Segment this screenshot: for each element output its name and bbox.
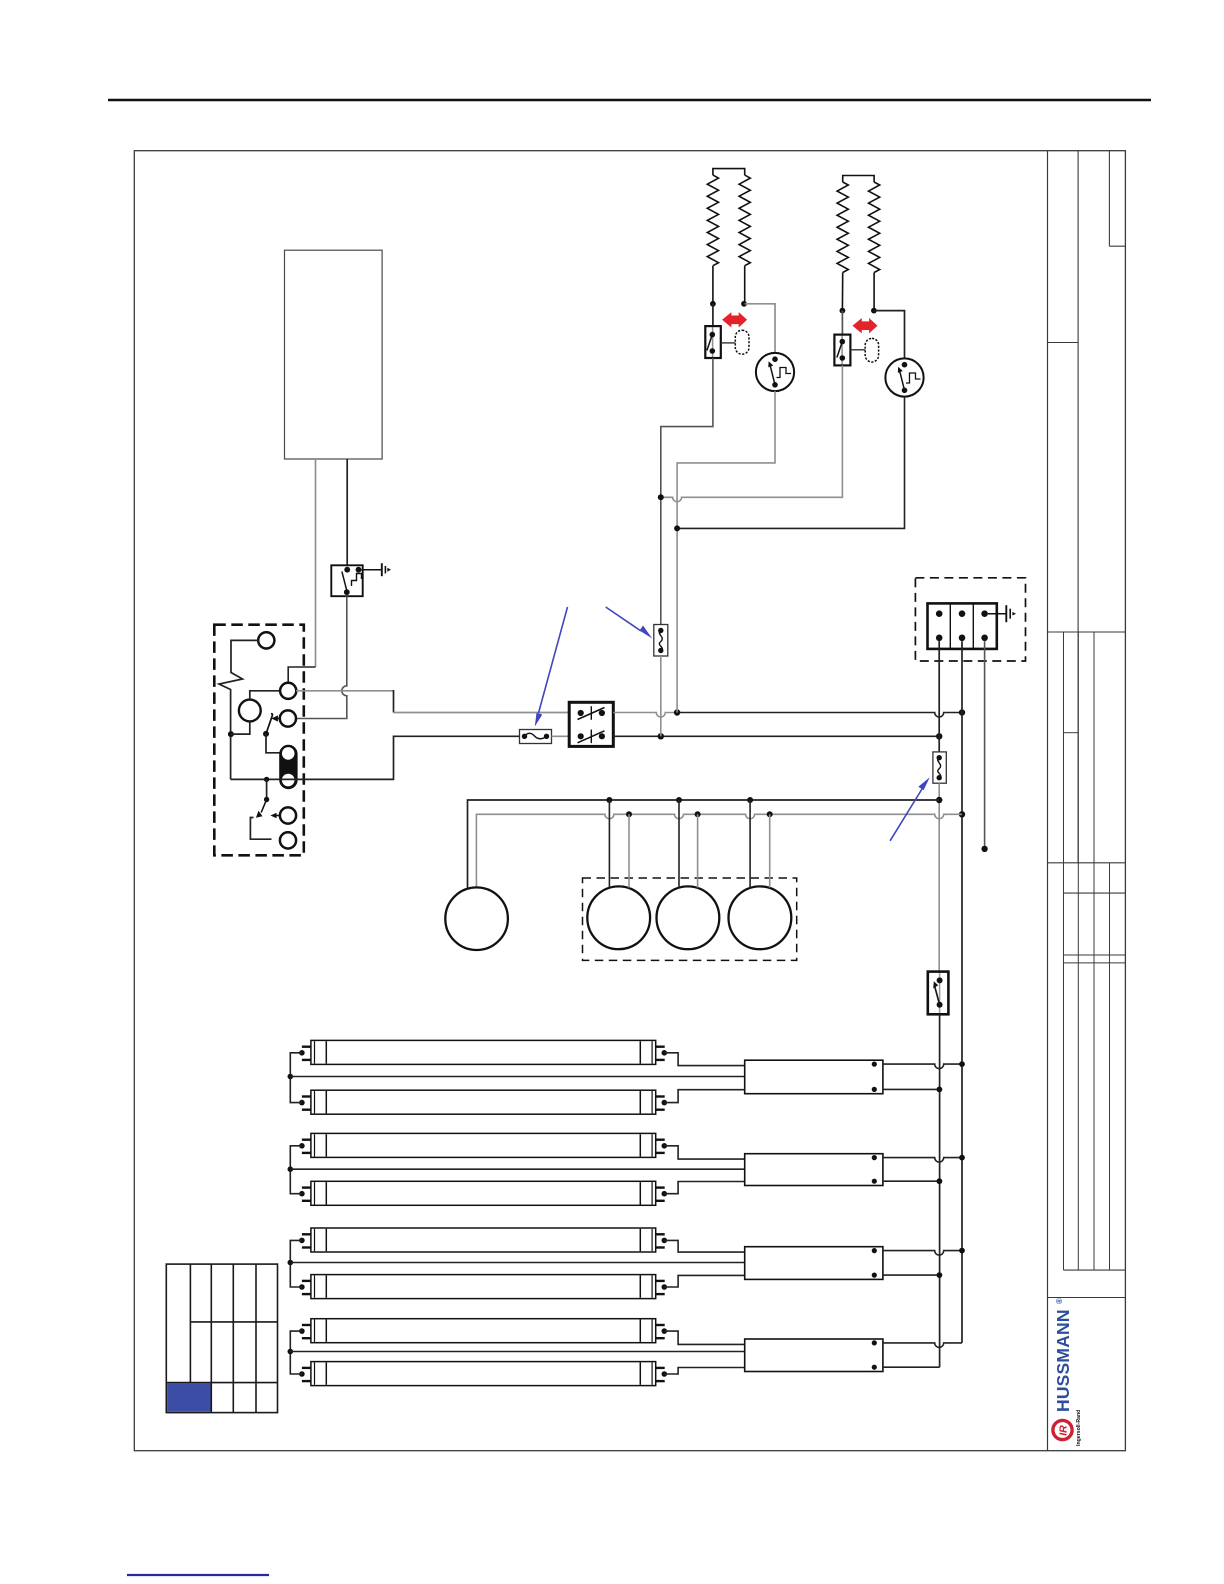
drawing border [134, 151, 1125, 1451]
fluorescent tube [302, 1133, 665, 1157]
svg-text:®: ® [1055, 1298, 1064, 1304]
V3 stub [984, 641, 986, 849]
sensing bulb O2 [865, 338, 878, 362]
wire heater into SW5 [712, 304, 714, 326]
fuse F2 [654, 625, 668, 657]
wire TC2 down to line B [677, 397, 904, 529]
terminal block ground [988, 605, 1016, 622]
blue highlight cell [167, 1383, 210, 1411]
fan motor FM2 [657, 886, 720, 949]
wire: SW1 to terminal T3 (hops gray bus) [296, 596, 347, 718]
fluorescent tube [302, 1090, 665, 1114]
svg-text:Ingersoll-Rand: Ingersoll-Rand [1076, 1410, 1082, 1446]
top rule [108, 99, 1151, 102]
wire heater to timer TC1 [745, 304, 775, 353]
case outline rectangle [285, 250, 383, 459]
fan motor FM0 [445, 887, 508, 950]
ballast B3 [745, 1247, 883, 1280]
wire TC1 down to top bus [677, 391, 775, 712]
bottom-left revision table [166, 1264, 277, 1413]
ballast outputs [883, 1251, 962, 1256]
bottom bus after SW4 [613, 735, 939, 737]
ground switch SW1 box [331, 565, 362, 596]
tube right wires to ballast [664, 1053, 744, 1066]
wire: rect left output to terminal T2 [315, 459, 317, 667]
tube right wires to ballast [664, 1331, 744, 1344]
pilot light M1 [239, 700, 261, 722]
fan motor FM1 [587, 886, 650, 949]
terminal T1 and supply zigzag wire [258, 632, 274, 648]
fan black bus [468, 800, 940, 888]
V1 upper segment [938, 641, 940, 752]
fluorescent tube [302, 1228, 665, 1252]
red arrow left [722, 312, 747, 327]
ballast outputs (last group corners) [883, 1343, 962, 1348]
defrost heater resistors left pair [707, 169, 750, 304]
terminal T3 [280, 710, 296, 726]
T3 arrow contact [271, 715, 280, 721]
title block grid [1048, 151, 1126, 1451]
switch lever SW3 [266, 779, 268, 799]
defrost timer TC2 [885, 358, 923, 396]
fan drop wires [678, 800, 680, 887]
footer blue line [127, 1574, 269, 1576]
wire SW5 down to fuse F2 [661, 358, 713, 625]
fan gray bus with hops [476, 814, 962, 887]
fan drop wires [749, 800, 751, 887]
wire SW6 down to bus junction [661, 365, 843, 501]
terminal T4 with arrow [280, 807, 296, 823]
svg-text:HUSSMANN: HUSSMANN [1053, 1309, 1073, 1412]
gray bus from T2 to double switch [296, 690, 393, 692]
wire below F2 to bottom bus [660, 656, 662, 736]
Hussmann logo [1053, 1298, 1082, 1446]
fluorescent tube [302, 1362, 665, 1386]
terminal T2 [280, 683, 296, 699]
receptacle capsule [280, 745, 297, 788]
fan drop wires [608, 800, 610, 887]
wire heater into SW6 [841, 311, 843, 335]
tube right wires to ballast [664, 1240, 744, 1252]
wire: SW2 pivot to receptacle [266, 734, 280, 753]
tube right wires to ballast [664, 1146, 744, 1159]
defrost thermostat SW6 [834, 335, 850, 366]
ballast outputs [883, 1158, 962, 1163]
switch lever SW2 [263, 731, 269, 737]
bottom bus from T1 wire through receptacle [231, 736, 524, 779]
defrost timer TC1 [756, 353, 794, 391]
ground symbol [361, 563, 391, 576]
fan motor FM3 [729, 886, 792, 949]
terminal block dashed box [915, 578, 1025, 661]
ballast B4 [745, 1339, 883, 1372]
lamp group left common wire [290, 1331, 302, 1374]
svg-text:IR: IR [1058, 1425, 1070, 1436]
fuse F3 [933, 752, 946, 783]
wire: rect right output down to ground switch [346, 459, 348, 565]
control thermostat dashed box [214, 625, 303, 856]
terminal T5 [280, 832, 296, 848]
lamp group left common wire [290, 1053, 302, 1103]
double-pole switch SW4 [569, 702, 613, 746]
fluorescent tube [302, 1181, 665, 1205]
fluorescent tube [302, 1040, 665, 1064]
lamp group left common wire [290, 1146, 302, 1194]
V2 vertical [961, 641, 963, 1343]
ballast B2 [745, 1154, 883, 1186]
defrost thermostat SW5 [705, 326, 721, 358]
sensing bulb O1 [735, 330, 749, 354]
red arrow right [853, 318, 878, 333]
V1 lower segment [939, 1014, 941, 1367]
cut-out switch SW7 [928, 972, 949, 1015]
wire heater to timer TC2 [874, 311, 904, 359]
V1 mid segment [938, 783, 940, 971]
fluorescent tube [302, 1319, 665, 1343]
lamp group left common wire [290, 1240, 302, 1287]
fans dashed box [583, 878, 797, 960]
ballast outputs [883, 1064, 962, 1069]
terminal block [928, 603, 997, 649]
ballast B1 [745, 1060, 883, 1094]
blue annotation arrows [535, 607, 930, 841]
fuse F1 [520, 730, 570, 744]
top bus after SW4 [613, 713, 677, 718]
defrost heater resistors right pair [837, 176, 880, 311]
fluorescent tube [302, 1275, 665, 1299]
